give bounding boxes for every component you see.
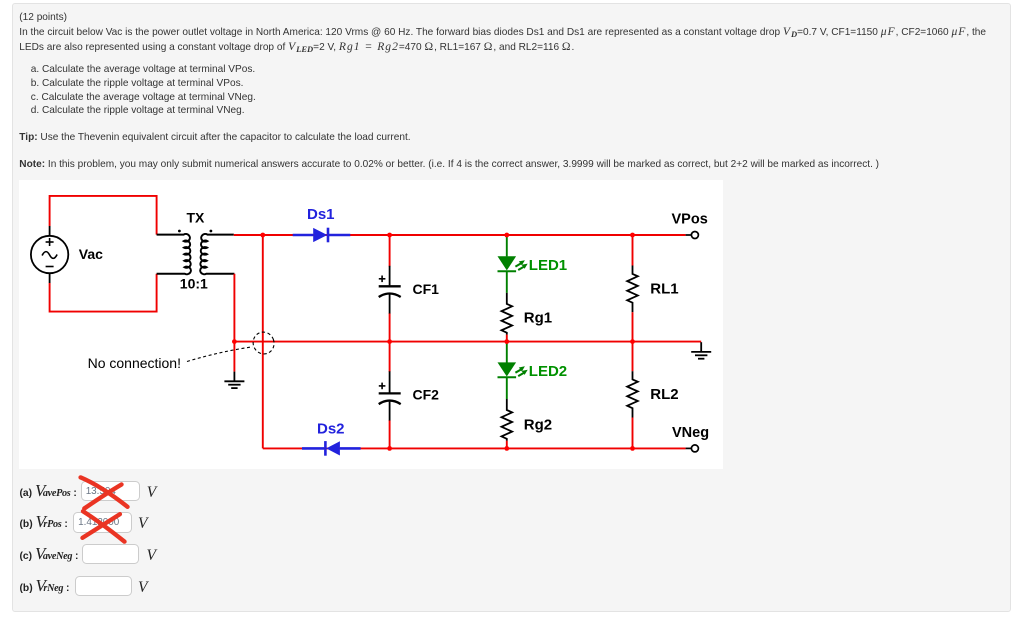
bottom rail VNeg wire bbox=[263, 447, 686, 449]
terminal VNeg bbox=[686, 447, 692, 449]
answer rows bbox=[20, 483, 77, 502]
capacitor CF2 bbox=[379, 371, 401, 420]
svg-text:RL2: RL2 bbox=[650, 386, 678, 403]
no connection dashed leader line bbox=[187, 347, 253, 362]
terminal VPos bbox=[686, 234, 692, 236]
resistor RL1 bbox=[632, 235, 634, 266]
capacitor CF1 bbox=[379, 266, 401, 314]
wire: CF1 leads to rails bbox=[389, 235, 391, 448]
diode Ds1 bbox=[293, 228, 351, 243]
red X marks bbox=[75, 472, 135, 517]
wire: primary loop top bbox=[50, 196, 157, 312]
mid rail wire bbox=[234, 341, 701, 343]
svg-text:Vac: Vac bbox=[79, 246, 103, 262]
resistor RL2 bbox=[632, 342, 634, 372]
top rail VPos wire bbox=[234, 235, 701, 448]
svg-text:VNeg: VNeg bbox=[672, 425, 709, 441]
ground under transformer bbox=[224, 372, 244, 389]
svg-text:CF1: CF1 bbox=[413, 281, 440, 297]
resistor Rg1 bbox=[501, 293, 512, 335]
transformer primary winding bbox=[157, 234, 235, 274]
ground right of mid rail bbox=[691, 342, 711, 359]
diode Ds2 bbox=[302, 441, 361, 456]
LED2 bbox=[498, 342, 517, 399]
svg-text:VPos: VPos bbox=[672, 212, 708, 228]
svg-text:10:1: 10:1 bbox=[180, 276, 208, 292]
svg-text:CF2: CF2 bbox=[413, 386, 440, 402]
no connection dashed ellipse bbox=[250, 329, 277, 357]
problem header text bbox=[19, 12, 67, 24]
LED1 bbox=[498, 235, 517, 293]
svg-text:LED2: LED2 bbox=[529, 363, 567, 380]
svg-text:Ds1: Ds1 bbox=[307, 206, 335, 223]
Vac source V1 bbox=[31, 226, 68, 283]
circuit schematic bbox=[19, 180, 723, 469]
svg-text:RL1: RL1 bbox=[650, 281, 678, 298]
wire: CF2 leads to rails bbox=[389, 342, 391, 372]
wire: primary loop bottom bbox=[50, 274, 157, 312]
LED1 emission arrows bbox=[515, 260, 527, 270]
wire: center vertical no-connection drop bbox=[262, 235, 264, 448]
resistor Rg2 bbox=[501, 399, 512, 441]
junction dots bbox=[232, 233, 635, 451]
svg-text:Ds2: Ds2 bbox=[317, 421, 345, 438]
svg-text:No connection!: No connection! bbox=[88, 355, 181, 371]
LED2 emission arrows bbox=[515, 366, 527, 376]
transformer secondary winding bbox=[200, 234, 234, 274]
svg-text:LED1: LED1 bbox=[529, 257, 567, 274]
svg-text:TX: TX bbox=[187, 210, 206, 226]
svg-text:Rg1: Rg1 bbox=[524, 310, 552, 327]
wire: secondary bottom to mid rail bbox=[233, 274, 235, 372]
transformer polarity dots bbox=[178, 230, 181, 233]
svg-text:Rg2: Rg2 bbox=[524, 417, 552, 434]
